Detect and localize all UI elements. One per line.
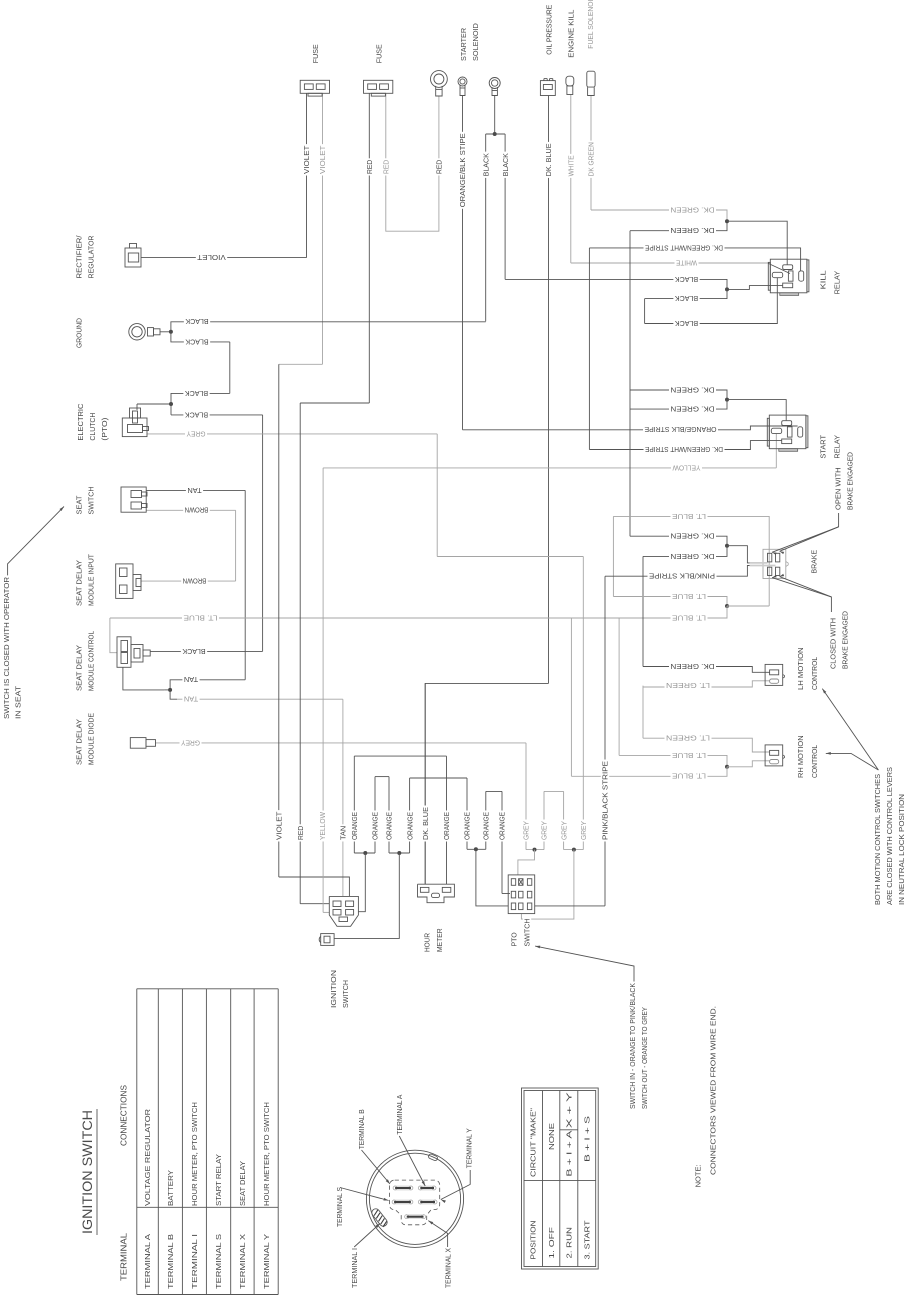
svg-text:SEAT DELAY: SEAT DELAY	[238, 1161, 247, 1206]
svg-text:IN NEUTRAL LOCK POSITION: IN NEUTRAL LOCK POSITION	[897, 794, 905, 905]
svg-text:BLACK: BLACK	[675, 275, 698, 284]
svg-text:TERMINAL A: TERMINAL A	[395, 1095, 404, 1135]
svg-text:B + I + S: B + I + S	[583, 1116, 592, 1162]
svg-text:GREY: GREY	[559, 821, 568, 840]
svg-text:TAN: TAN	[339, 826, 348, 840]
svg-text:ORANGE: ORANGE	[350, 812, 359, 840]
svg-text:LT. BLUE: LT. BLUE	[672, 751, 706, 760]
svg-text:IN SEAT: IN SEAT	[14, 685, 23, 719]
svg-text:CONNECTIONS: CONNECTIONS	[120, 1085, 129, 1146]
svg-text:BLACK: BLACK	[675, 319, 698, 328]
svg-text:MODULE DIODE: MODULE DIODE	[87, 713, 96, 765]
svg-text:BLACK: BLACK	[501, 153, 510, 176]
svg-text:OPEN WITH: OPEN WITH	[834, 467, 843, 510]
svg-text:PINK/BLK STRIPE: PINK/BLK STRIPE	[649, 572, 715, 581]
svg-text:HOUR METER, PTO SWITCH: HOUR METER, PTO SWITCH	[190, 1102, 199, 1206]
svg-text:DK. GREEN: DK. GREEN	[671, 662, 715, 671]
svg-text:CIRCUIT "MAKE": CIRCUIT "MAKE"	[529, 1108, 538, 1177]
svg-text:TERMINAL I: TERMINAL I	[190, 1234, 199, 1289]
svg-text:DK. GREEN/WHT STRIPE: DK. GREEN/WHT STRIPE	[645, 243, 723, 252]
svg-text:PINK/BLACK STRIPE: PINK/BLACK STRIPE	[601, 761, 610, 840]
svg-text:BROWN: BROWN	[185, 506, 209, 515]
svg-text:RED: RED	[382, 160, 391, 174]
svg-text:LT. BLUE: LT. BLUE	[183, 613, 217, 622]
svg-text:FUSE: FUSE	[375, 44, 384, 63]
svg-text:SOLENOID: SOLENOID	[471, 23, 480, 61]
svg-text:LT. BLUE: LT. BLUE	[672, 772, 706, 781]
svg-text:MODULE INPUT: MODULE INPUT	[87, 554, 96, 606]
svg-text:ORANGE: ORANGE	[405, 812, 414, 840]
svg-text:FUEL SOLENOID: FUEL SOLENOID	[586, 0, 595, 49]
svg-text:DK. GREEN: DK. GREEN	[671, 205, 715, 214]
svg-text:GREY: GREY	[181, 738, 200, 747]
svg-text:CONNECTORS VIEWED FROM WIRE EN: CONNECTORS VIEWED FROM WIRE END.	[708, 1006, 717, 1175]
svg-text:BLACK: BLACK	[182, 647, 205, 656]
svg-text:SWITCH IN - ORANGE TO PINK/BLA: SWITCH IN - ORANGE TO PINK/BLACK	[628, 983, 637, 1109]
svg-text:LT. GREEN: LT. GREEN	[666, 681, 710, 690]
svg-text:NONE: NONE	[547, 1123, 556, 1150]
svg-text:TERMINAL A: TERMINAL A	[143, 1234, 152, 1289]
svg-text:WHITE: WHITE	[567, 155, 576, 176]
svg-text:DK. BLUE: DK. BLUE	[421, 807, 430, 840]
svg-text:B + I + A: B + I + A	[565, 1131, 574, 1177]
svg-text:TAN: TAN	[187, 486, 201, 495]
svg-text:BLACK: BLACK	[675, 294, 698, 303]
svg-text:METER: METER	[435, 928, 444, 952]
svg-text:STARTER: STARTER	[459, 28, 468, 61]
svg-text:LH MOTION: LH MOTION	[796, 647, 805, 690]
svg-text:ORANGE: ORANGE	[463, 812, 472, 840]
svg-text:TERMINAL Y: TERMINAL Y	[464, 1128, 473, 1168]
svg-text:RELAY: RELAY	[833, 271, 842, 295]
svg-text:ORANGE: ORANGE	[371, 812, 380, 840]
svg-text:TERMINAL S: TERMINAL S	[335, 1187, 344, 1227]
svg-text:ORANGE/BLK STRIPE: ORANGE/BLK STRIPE	[644, 425, 716, 434]
svg-text:CLUTCH: CLUTCH	[88, 413, 97, 441]
svg-text:BLACK: BLACK	[481, 153, 490, 176]
svg-text:DK. BLUE: DK. BLUE	[544, 143, 553, 176]
svg-text:3. START: 3. START	[583, 1220, 592, 1260]
svg-text:BOTH MOTION CONTROL SWITCHES: BOTH MOTION CONTROL SWITCHES	[873, 774, 882, 905]
svg-text:HOUR METER, PTO SWITCH: HOUR METER, PTO SWITCH	[262, 1102, 271, 1206]
svg-text:DK. GREEN: DK. GREEN	[671, 385, 715, 394]
svg-text:BLACK: BLACK	[185, 337, 208, 346]
svg-text:ORANGE/BLK STIPE: ORANGE/BLK STIPE	[458, 133, 467, 207]
svg-text:YELLOW: YELLOW	[318, 812, 327, 840]
svg-text:SWITCH IS CLOSED WITH OPERATOR: SWITCH IS CLOSED WITH OPERATOR	[2, 577, 11, 719]
svg-text:1. OFF: 1. OFF	[547, 1226, 556, 1258]
svg-text:LT. BLUE: LT. BLUE	[672, 592, 706, 601]
svg-text:SWITCH OUT - ORANGE TO GREY: SWITCH OUT - ORANGE TO GREY	[640, 1007, 649, 1109]
svg-text:ORANGE: ORANGE	[385, 812, 394, 840]
svg-text:GROUND: GROUND	[75, 318, 84, 348]
svg-text:FUSE: FUSE	[311, 44, 320, 63]
svg-text:GREY: GREY	[186, 429, 205, 438]
svg-text:TERMINAL I: TERMINAL I	[350, 1248, 359, 1288]
svg-text:NOTE:: NOTE:	[693, 1164, 702, 1187]
svg-text:TERMINAL X: TERMINAL X	[443, 1248, 452, 1288]
svg-text:VIOLET: VIOLET	[275, 811, 284, 840]
svg-text:VIOLET: VIOLET	[302, 145, 311, 174]
svg-text:IGNITION: IGNITION	[329, 970, 338, 1008]
svg-text:CLOSED WITH: CLOSED WITH	[829, 618, 838, 669]
svg-text:VIOLET: VIOLET	[318, 145, 327, 174]
svg-text:GREY: GREY	[540, 821, 549, 840]
svg-text:ORANGE: ORANGE	[482, 812, 491, 840]
svg-text:X + Y: X + Y	[565, 1092, 574, 1128]
svg-text:SEAT DELAY: SEAT DELAY	[75, 645, 84, 691]
svg-text:RED: RED	[365, 160, 374, 174]
svg-text:VIOLET: VIOLET	[197, 253, 226, 262]
svg-text:PTO: PTO	[510, 932, 519, 946]
svg-text:SWITCH: SWITCH	[87, 487, 96, 515]
svg-text:RED: RED	[296, 826, 305, 840]
svg-text:CONTROL: CONTROL	[810, 657, 819, 690]
svg-text:BRAKE: BRAKE	[810, 550, 819, 574]
svg-text:SEAT DELAY: SEAT DELAY	[75, 719, 84, 765]
svg-text:BROWN: BROWN	[183, 577, 207, 586]
svg-text:SEAT DELAY: SEAT DELAY	[75, 560, 84, 606]
svg-text:(PTO): (PTO)	[100, 418, 109, 441]
svg-text:RECTIFIER/: RECTIFIER/	[75, 235, 84, 279]
svg-text:TERMINAL S: TERMINAL S	[214, 1234, 223, 1289]
svg-text:ELECTRIC: ELECTRIC	[76, 403, 85, 441]
svg-text:BATTERY: BATTERY	[166, 1170, 175, 1206]
svg-text:TERMINAL: TERMINAL	[120, 1232, 129, 1281]
svg-text:START: START	[819, 435, 828, 459]
svg-text:2. RUN: 2. RUN	[565, 1227, 574, 1259]
svg-text:RELAY: RELAY	[833, 435, 842, 459]
svg-text:SWITCH: SWITCH	[341, 980, 350, 1008]
svg-text:VOLTAGE REGULATOR: VOLTAGE REGULATOR	[143, 1109, 152, 1206]
svg-text:IGNITION SWITCH: IGNITION SWITCH	[80, 1110, 95, 1234]
svg-text:START RELAY: START RELAY	[214, 1154, 223, 1206]
svg-text:DK GREEN: DK GREEN	[587, 142, 596, 176]
svg-text:LT. BLUE: LT. BLUE	[672, 613, 706, 622]
svg-text:DK. GREEN: DK. GREEN	[671, 226, 715, 235]
svg-text:BLACK: BLACK	[185, 317, 208, 326]
svg-text:RH MOTION: RH MOTION	[796, 735, 805, 778]
svg-text:LT. BLUE: LT. BLUE	[672, 512, 706, 521]
svg-text:BRAKE ENGAGED: BRAKE ENGAGED	[846, 452, 855, 510]
svg-text:GREY: GREY	[579, 821, 588, 840]
svg-text:BRAKE ENGAGED: BRAKE ENGAGED	[841, 611, 850, 669]
svg-text:CONTROL: CONTROL	[810, 745, 819, 778]
svg-text:ORANGE: ORANGE	[498, 812, 507, 840]
svg-text:OIL PRESSURE: OIL PRESSURE	[545, 5, 554, 55]
svg-text:DK. GREEN: DK. GREEN	[671, 532, 715, 541]
svg-text:SEAT: SEAT	[75, 495, 84, 514]
svg-text:REGULATOR: REGULATOR	[87, 236, 96, 279]
svg-text:DK. GREEN: DK. GREEN	[671, 552, 715, 561]
svg-text:KILL: KILL	[819, 270, 828, 289]
svg-text:SWITCH: SWITCH	[523, 919, 532, 947]
svg-text:LT. GREEN: LT. GREEN	[666, 734, 710, 743]
svg-text:TAN: TAN	[184, 695, 198, 704]
svg-text:RED: RED	[435, 160, 444, 174]
svg-text:BLACK: BLACK	[185, 410, 208, 419]
svg-text:DK. GREEN/WHT STRIPE: DK. GREEN/WHT STRIPE	[645, 445, 723, 454]
svg-text:TERMINAL X: TERMINAL X	[238, 1234, 247, 1289]
svg-text:TERMINAL B: TERMINAL B	[166, 1234, 175, 1289]
svg-text:BLACK: BLACK	[185, 389, 208, 398]
svg-text:ARE CLOSED WITH CONTROL LEVERS: ARE CLOSED WITH CONTROL LEVERS	[885, 767, 894, 905]
svg-text:MODULE CONTROL: MODULE CONTROL	[87, 631, 96, 691]
svg-text:HOUR: HOUR	[423, 933, 432, 952]
svg-text:TAN: TAN	[184, 675, 198, 684]
svg-text:DK. GREEN: DK. GREEN	[671, 405, 715, 414]
svg-text:ENGINE KILL: ENGINE KILL	[567, 10, 576, 58]
svg-text:YELLOW: YELLOW	[672, 463, 700, 472]
svg-text:ORANGE: ORANGE	[442, 812, 451, 840]
svg-text:WHITE: WHITE	[676, 258, 697, 267]
svg-text:GREY: GREY	[522, 821, 531, 840]
svg-text:TERMINAL B: TERMINAL B	[357, 1109, 366, 1149]
svg-text:TERMINAL Y: TERMINAL Y	[262, 1234, 271, 1289]
svg-text:POSITION: POSITION	[529, 1221, 538, 1260]
